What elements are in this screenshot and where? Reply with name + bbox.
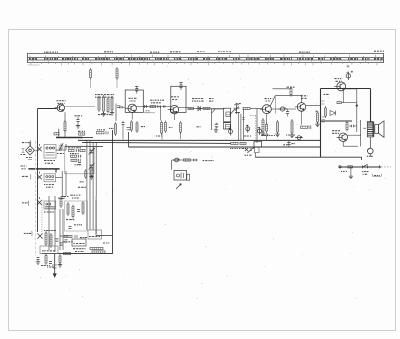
strip marks b bbox=[197, 126, 201, 128]
interstage labels C13 bbox=[150, 99, 164, 101]
output transformer core bbox=[373, 122, 375, 137]
osc mid label bbox=[78, 186, 86, 188]
bottom cluster cap bbox=[37, 257, 40, 259]
wire y235 stub bbox=[96, 235, 113, 237]
mid rail y121 bbox=[321, 120, 353, 122]
strip cluster mid bbox=[161, 123, 163, 134]
TR6 collector right bbox=[346, 88, 357, 90]
bus y157 bbox=[255, 156, 361, 158]
detector diode D2 bbox=[231, 105, 240, 114]
TR2 emitter drop bbox=[131, 113, 133, 120]
battery gnd stem bbox=[350, 167, 352, 175]
det vertical wire x211 bbox=[211, 109, 213, 130]
vert wire x66 bbox=[65, 171, 67, 196]
AVC resistor cluster bbox=[97, 132, 105, 134]
decoupling resistor R24 bbox=[240, 142, 246, 144]
main supply line x370 bbox=[370, 89, 372, 122]
bypass cap C3 bbox=[77, 119, 80, 121]
TR6 emitter drop bbox=[343, 91, 345, 103]
bias resistor horizontal bbox=[337, 102, 341, 104]
battery bracket label bbox=[373, 174, 382, 176]
trimmer C1 bbox=[59, 143, 64, 151]
audio labels bbox=[261, 135, 275, 137]
trimmer left of diamond bbox=[22, 149, 25, 153]
osc block part row1 bbox=[69, 149, 75, 151]
output transformer OT winding bbox=[368, 122, 373, 135]
label column left edge bbox=[21, 165, 27, 167]
det cap C17 bbox=[215, 124, 218, 127]
battery line bbox=[339, 166, 382, 168]
coil pack row labels bbox=[63, 241, 73, 243]
det labels top bbox=[192, 99, 204, 102]
tuning gang wire b bbox=[89, 140, 91, 230]
output stage rail x321 bbox=[320, 89, 322, 158]
wire L1 right bbox=[56, 149, 66, 151]
base divider dots bbox=[324, 93, 329, 95]
earth arrow line bbox=[54, 254, 56, 274]
osc block row bottom bbox=[85, 171, 87, 177]
strip part under TR3 bbox=[180, 123, 182, 132]
padder resistor R3 bbox=[79, 133, 85, 135]
TR7 emitter wire bbox=[342, 142, 344, 147]
wire TR4 collector top bbox=[270, 96, 302, 107]
vert wire x62 bbox=[61, 171, 63, 196]
diode marks bbox=[236, 103, 241, 105]
interstage wire bbox=[143, 106, 171, 108]
wire column x49 bbox=[48, 196, 50, 250]
wire y137 thick bbox=[56, 137, 83, 139]
transformer box lower left bbox=[40, 246, 58, 254]
coupling electrolytic C21 bbox=[246, 127, 250, 131]
interstage drop bbox=[160, 107, 162, 121]
SW5 label bbox=[341, 170, 347, 172]
interstage part c bbox=[164, 105, 166, 108]
coil pack row below bbox=[64, 235, 72, 237]
speaker feed tick bbox=[363, 127, 366, 129]
det small marks bbox=[242, 118, 244, 120]
wire column x60 bbox=[59, 209, 61, 250]
MW coil pack res1 bbox=[67, 204, 69, 214]
battery line left node bbox=[339, 166, 341, 168]
PU electrolytic bbox=[175, 158, 179, 162]
wire cap to TR5 bbox=[286, 108, 296, 110]
audio bias parts b bbox=[266, 114, 268, 124]
converter gnd b bbox=[110, 111, 114, 115]
tuning gang wire c bbox=[92, 142, 94, 230]
transistor TR3 bbox=[170, 105, 178, 113]
tone arrow bbox=[176, 184, 181, 189]
audio bias parts c bbox=[277, 122, 279, 132]
AGC dotted line bbox=[255, 116, 257, 141]
dotted link x42 bbox=[41, 200, 43, 232]
TR2 type label bbox=[129, 97, 137, 99]
tuning gang wire a bbox=[86, 140, 88, 230]
supply bus y140 bbox=[78, 139, 321, 141]
osc block part row3 bbox=[71, 159, 77, 161]
driver load resistor R21 bbox=[290, 89, 292, 95]
dial scale labels above bbox=[44, 51, 58, 53]
emitter resistor R1 bbox=[64, 122, 66, 131]
TR7 collector to transformer bbox=[348, 134, 361, 136]
volume feed loop bbox=[223, 108, 230, 129]
wire x96 top bbox=[95, 196, 97, 200]
converter bias network bbox=[98, 98, 100, 110]
pointer mark below dial bbox=[346, 65, 349, 68]
wire y137 junction bbox=[58, 129, 60, 137]
cap on x62 bbox=[61, 196, 64, 198]
box top bus stub bbox=[65, 145, 103, 147]
strip part under TR2 b bbox=[136, 123, 138, 131]
switch contact S3 bbox=[37, 200, 42, 205]
TR5 emitter resistor bbox=[291, 121, 293, 133]
converter cap bbox=[120, 106, 122, 108]
VR label bbox=[245, 154, 252, 156]
det cap gnd bbox=[214, 128, 218, 132]
PU bus link bbox=[127, 132, 129, 147]
mechanical ganging dashed line bbox=[35, 141, 37, 256]
long return bus corner bbox=[42, 130, 113, 254]
oscillator coil L2 box bbox=[44, 174, 56, 182]
input coil T1 cluster bbox=[45, 233, 47, 244]
power switch SW5 bbox=[348, 166, 353, 168]
bus electrolytic C19 bbox=[229, 130, 233, 134]
gramophone pickup selector diamond bbox=[26, 146, 35, 155]
wire x238 down bbox=[237, 112, 239, 140]
bias diode bbox=[330, 111, 336, 116]
earth arrowhead bbox=[53, 274, 56, 278]
transistor TR5 bbox=[297, 103, 306, 112]
wire R21 top bbox=[273, 88, 292, 90]
interstage cap Cb bbox=[158, 105, 160, 108]
converter network labels top bbox=[95, 95, 114, 98]
TR5 collector wire bbox=[306, 104, 321, 106]
detector diode D1 bbox=[196, 106, 202, 110]
bus riser x128 bbox=[128, 132, 130, 147]
wire x243 down bbox=[242, 109, 244, 141]
phono jack box bbox=[174, 171, 187, 181]
transistor TR7 bbox=[339, 133, 348, 142]
dial scale frequency figures bbox=[29, 58, 383, 60]
converter gnd a bbox=[101, 112, 105, 116]
battery dashed stub bbox=[381, 166, 391, 168]
wire TR5 top bbox=[301, 95, 303, 103]
transistor TR2 bbox=[128, 104, 136, 112]
osc section label bbox=[70, 194, 80, 196]
transistor TR4 bbox=[262, 105, 271, 114]
sub-dial trimmer B bbox=[116, 69, 118, 78]
IFT2 winding loop bbox=[171, 86, 186, 112]
interstage marks bbox=[145, 105, 147, 108]
MW coil pack res2 bbox=[72, 207, 74, 217]
TR1 emitter wire bbox=[64, 112, 66, 122]
coil L1 labels bbox=[44, 160, 55, 162]
output stage top rail bbox=[321, 88, 371, 90]
wire x361 bbox=[360, 120, 362, 146]
osc block part d bbox=[78, 162, 81, 164]
speckles bbox=[161, 215, 164, 218]
strip cap C7 bbox=[122, 122, 125, 124]
gnd osc block bbox=[89, 175, 93, 179]
TR2 collector out bbox=[136, 105, 148, 107]
R1 to thick wire bbox=[64, 131, 66, 138]
emitter resistor R31 bbox=[346, 123, 348, 130]
variable capacitor VC1 bbox=[89, 150, 93, 153]
MW coil pack res3 bbox=[82, 203, 84, 213]
TR4 type label bbox=[265, 98, 273, 100]
cap C3 gnd bbox=[76, 124, 80, 128]
PU row wire bbox=[172, 159, 198, 161]
battery plus tick bbox=[378, 165, 381, 168]
det series resistor 2 bbox=[203, 107, 210, 109]
interstage bottom stub bbox=[144, 112, 155, 114]
IFT2 decoupling cap bbox=[180, 85, 183, 87]
band switch SW3 label bbox=[22, 202, 28, 204]
switch contact S1 bbox=[37, 147, 41, 151]
bus y147 bbox=[129, 146, 321, 148]
on-off switch bbox=[361, 164, 370, 168]
wire diamond to contact bbox=[34, 149, 38, 151]
bus electrolytic C27 bbox=[297, 136, 301, 140]
TR1 collector wire bbox=[65, 106, 95, 108]
det series resistor bbox=[188, 107, 194, 109]
band switch SW4 label bbox=[24, 232, 31, 234]
inline resistor on return bus bbox=[64, 253, 71, 255]
decoupling resistor R23 bbox=[231, 142, 238, 144]
wire left column x37 lower bbox=[37, 169, 39, 232]
converter drop x116 bbox=[115, 104, 117, 122]
band coil L3 bbox=[44, 201, 56, 209]
transistor TR1 bbox=[57, 104, 64, 111]
interstage cap C25 bbox=[280, 107, 284, 111]
strip part under TR2 a bbox=[131, 122, 133, 130]
C33 label bbox=[367, 155, 374, 157]
speaker SP bbox=[375, 125, 379, 134]
node dots under diamond bbox=[26, 157, 32, 159]
battery gnd bbox=[349, 175, 353, 179]
wire column x63 bbox=[62, 209, 64, 250]
det out resistor bbox=[243, 107, 250, 109]
wire L2 right bbox=[56, 177, 63, 179]
wire left column x37 bbox=[37, 109, 39, 169]
bottom cluster part bbox=[59, 256, 61, 263]
MW coil pack marks bbox=[66, 219, 74, 221]
VR bottom riser bbox=[254, 153, 256, 158]
band switch SW1 label bbox=[22, 142, 30, 144]
variable capacitor VC2 bbox=[89, 165, 93, 168]
TR5 type label bbox=[301, 95, 308, 97]
jack pin bbox=[187, 174, 190, 180]
riser cap marks bbox=[127, 128, 131, 130]
driver transformer T2 cap bbox=[346, 74, 350, 78]
VR arrow bbox=[247, 147, 254, 153]
TR3 emitter drop bbox=[173, 114, 175, 120]
loop inner resistor bbox=[226, 112, 230, 117]
antenna coil L1 box bbox=[44, 145, 56, 159]
loop inner box bbox=[226, 124, 231, 128]
earth arrow cross ticks bbox=[52, 265, 57, 268]
emitter cap C31 bbox=[351, 125, 353, 128]
dial scale frame bbox=[27, 54, 384, 63]
loop inner cap bbox=[224, 121, 231, 123]
junction dot x357 bbox=[356, 105, 358, 107]
det wire x241 bbox=[240, 114, 242, 141]
osc block part row2 bbox=[71, 155, 77, 157]
cluster caps row bbox=[60, 243, 63, 245]
switch contact S4 bbox=[37, 233, 42, 238]
PU riser bbox=[171, 160, 173, 170]
sub-dial trimmer A bbox=[90, 70, 92, 78]
TR1 type label bbox=[57, 100, 66, 102]
TR3 type label bbox=[171, 96, 179, 98]
bus electrolytic C23 bbox=[258, 129, 262, 133]
interbus cap cluster bbox=[287, 140, 291, 147]
wire y116 to electrolytic bbox=[212, 108, 224, 110]
IFT1 decoupling cap bbox=[135, 89, 138, 91]
det row base wire bbox=[188, 108, 225, 110]
audio part e bbox=[317, 113, 319, 122]
PU resistor bbox=[184, 159, 191, 161]
bottom cluster resistor bbox=[45, 256, 47, 264]
strip resistor R5 bbox=[115, 124, 117, 134]
bus y157 right drop bbox=[361, 157, 363, 160]
MW coil pack cap bbox=[77, 209, 80, 211]
labels under box B1 bbox=[73, 248, 85, 250]
transistor TR6 bbox=[337, 82, 346, 91]
wire base TR1 bbox=[38, 108, 57, 110]
bottom cluster cap2 bbox=[49, 261, 52, 263]
tuning gang wire d bbox=[95, 142, 97, 234]
audio bias parts a bbox=[262, 120, 264, 131]
audio parts d bbox=[301, 111, 303, 125]
wire column x55 bbox=[54, 196, 56, 252]
parts right x88-110 bbox=[88, 230, 102, 239]
band switch SW2 label bbox=[22, 175, 28, 177]
TR3 collector out bbox=[179, 107, 188, 109]
volume feed riser bbox=[256, 109, 258, 144]
coil L2 labels bbox=[44, 184, 54, 186]
output labels bbox=[332, 131, 340, 134]
bus y143 bbox=[82, 142, 231, 143]
parts below osc label bbox=[58, 197, 65, 199]
switch label bbox=[362, 171, 369, 173]
output electrolytic C33 bbox=[368, 148, 374, 154]
thick tuner chassis line bbox=[28, 168, 59, 170]
switch contact S2 bbox=[37, 175, 42, 180]
interstage resistor Ra bbox=[150, 105, 156, 107]
wire x96 vert bbox=[95, 200, 97, 236]
PU cap bbox=[194, 159, 196, 162]
IFT1 winding loop bbox=[125, 90, 143, 112]
bias cap TR5 base bbox=[286, 111, 289, 113]
converter network labels bottom bbox=[98, 114, 112, 116]
SW PU label bbox=[203, 160, 214, 162]
volume control VR body bbox=[254, 141, 262, 147]
AGC dotted horizontal bbox=[250, 115, 256, 117]
wire diamond top bbox=[29, 142, 31, 146]
terminal box B1 bbox=[72, 239, 86, 246]
TR6 type label bbox=[335, 78, 343, 80]
strip marks a bbox=[169, 127, 173, 129]
VR left parts bbox=[245, 148, 248, 151]
MW coil pack box bbox=[65, 201, 88, 231]
oscillator block box bbox=[65, 146, 94, 174]
